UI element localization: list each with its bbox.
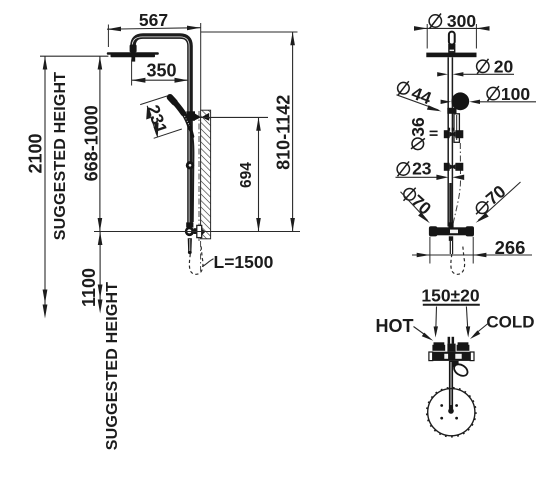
hand shower handle hanging	[454, 114, 459, 143]
svg-text:20: 20	[494, 57, 514, 77]
spout (tilted ellipse)	[452, 362, 470, 378]
down rod	[448, 361, 454, 414]
svg-text:L=1500: L=1500	[214, 252, 274, 272]
svg-text:668-1000: 668-1000	[81, 105, 101, 181]
wall centerline below wall	[200, 241, 202, 271]
svg-text:694: 694	[238, 162, 255, 188]
hot inlet	[432, 342, 445, 351]
svg-text:350: 350	[146, 61, 176, 81]
bottom reference line (valve level)	[94, 231, 300, 233]
valve bar (top view)	[429, 352, 474, 361]
svg-text:SUGGESTED HEIGHT: SUGGESTED HEIGHT	[52, 72, 69, 241]
label dia 100	[487, 84, 530, 104]
wall centerline (dash-dot)	[198, 111, 200, 241]
label dia 20	[477, 57, 514, 77]
head disc (edge view)	[426, 53, 476, 58]
hand shower hose along pipe	[193, 137, 194, 223]
svg-text:COLD: COLD	[486, 313, 534, 332]
svg-text:SUGGESTED HEIGHT: SUGGESTED HEIGHT	[104, 282, 121, 451]
svg-text:HOT: HOT	[376, 316, 414, 336]
RIGHT VIEW	[396, 11, 537, 274]
extension line top for 810-1142	[201, 31, 298, 33]
leader 150 left	[434, 307, 438, 338]
underline 150±20	[423, 304, 480, 306]
outlet stem below valve	[450, 241, 452, 254]
svg-text:36: 36	[408, 117, 428, 137]
hose dash-dot (front)	[453, 143, 461, 224]
valve bar (front view)	[429, 226, 474, 236]
leader HOT	[414, 327, 434, 341]
dimension 20 arrows	[437, 72, 514, 76]
dimension 231 extension lines	[140, 96, 182, 138]
hand shower nut	[447, 108, 456, 114]
shower head ball joint	[130, 45, 137, 53]
hose loop dashed (front)	[451, 244, 465, 274]
riser internal rod near valve	[449, 183, 451, 226]
slider bracket upper	[444, 128, 464, 139]
top collar	[448, 44, 455, 53]
slider bracket lower	[444, 163, 464, 171]
shower head nub	[131, 57, 135, 62]
wall escutcheon	[197, 225, 206, 237]
leader 44	[397, 95, 442, 112]
dimension line 810-1142	[290, 32, 295, 232]
label dia 70 right	[476, 181, 510, 214]
label dia 23	[397, 158, 432, 178]
label dia 300	[429, 11, 476, 31]
extension line 694 top	[201, 116, 268, 118]
dimension 350	[132, 61, 188, 83]
svg-text:2100: 2100	[25, 133, 45, 173]
leader COLD	[470, 324, 488, 340]
main riser pipe (front)	[448, 57, 452, 226]
leader 150 right	[466, 307, 470, 338]
svg-text:266: 266	[495, 237, 526, 258]
dimension 266	[412, 237, 532, 258]
dimension 100 arrows	[441, 100, 536, 104]
svg-text:150±20: 150±20	[421, 286, 480, 306]
dimension 567	[107, 10, 201, 31]
extension line right of 567 / wall top	[200, 23, 202, 110]
extension lines 266	[430, 237, 473, 264]
svg-text:100: 100	[501, 84, 530, 104]
shower head disc	[107, 52, 159, 55]
leader 70 right	[476, 182, 521, 223]
extension line left of 567	[107, 25, 109, 48]
hand shower head circle	[451, 92, 469, 110]
LEFT VIEW	[25, 10, 300, 450]
valve handle	[188, 238, 192, 254]
pipe inner highlight	[132, 37, 189, 225]
dimension line 2100	[43, 56, 48, 318]
big circle (head top view)	[427, 388, 476, 437]
label dia 44	[398, 81, 435, 108]
valve body	[185, 227, 197, 236]
cold inlet	[457, 342, 470, 351]
spout connector	[453, 361, 459, 367]
diverter knob under valve	[449, 236, 453, 241]
dimension line 1100	[98, 232, 103, 314]
wall hatch panel	[201, 110, 211, 239]
face dots	[440, 404, 458, 419]
label dia 70 left	[404, 188, 436, 219]
leader 23	[396, 175, 465, 180]
top stem tube	[449, 32, 455, 45]
label dia 36	[408, 117, 428, 150]
hand shower wand	[170, 97, 193, 136]
valve inlet connection top	[448, 222, 453, 227]
svg-text:567: 567	[139, 10, 168, 30]
equals mark	[430, 131, 438, 136]
svg-text:300: 300	[447, 11, 476, 31]
hose loop dashed	[189, 244, 203, 274]
svg-text:1100: 1100	[79, 268, 99, 307]
valve collar	[186, 222, 193, 227]
holder bracket	[186, 111, 209, 121]
leader L=1500	[202, 259, 213, 267]
dimension line 231	[146, 106, 158, 138]
dimension line 694	[256, 117, 261, 231]
dimension 300	[414, 26, 490, 31]
svg-text:23: 23	[412, 158, 432, 178]
BOTTOM DETAIL	[376, 286, 535, 437]
slider knob	[186, 161, 194, 169]
extension lines 300	[427, 24, 476, 49]
extension line left of 350	[131, 60, 133, 86]
shower column pipe	[133, 36, 190, 225]
center cartridge prongs	[447, 337, 455, 352]
dimension line 668-1000	[98, 56, 103, 231]
svg-text:810-1142: 810-1142	[273, 95, 293, 170]
leader 70 left	[401, 192, 430, 224]
top reference line (head level)	[40, 55, 108, 57]
